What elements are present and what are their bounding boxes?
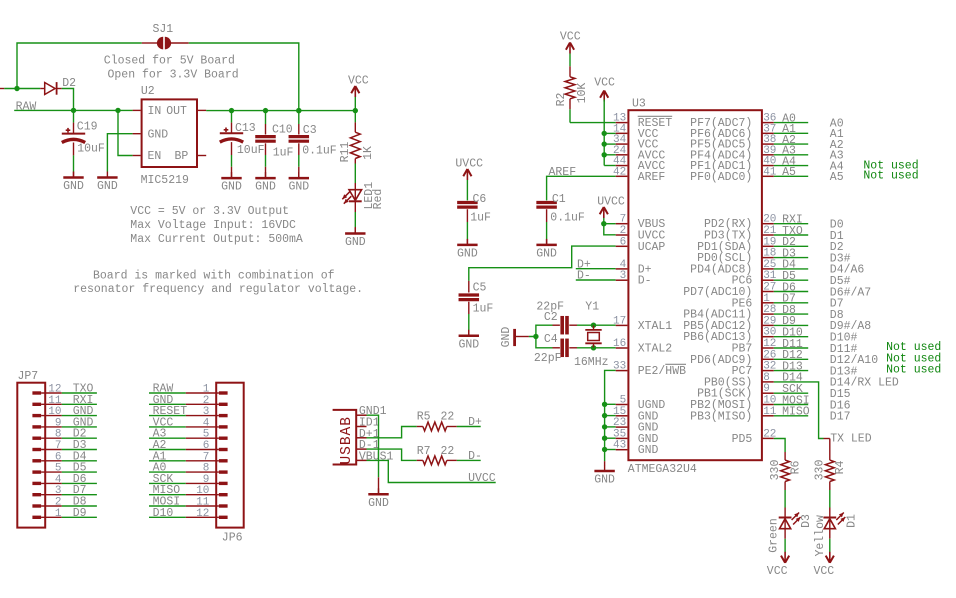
capacitor C2 22pF <box>536 301 593 335</box>
ground at crystal <box>500 327 529 348</box>
wire PE2 to ground net <box>605 370 616 465</box>
svg-text:GND: GND <box>368 497 389 510</box>
svg-text:12: 12 <box>196 508 209 520</box>
wire R4 feed <box>829 439 831 453</box>
power VCC below D1 <box>814 552 835 578</box>
svg-text:Yellow: Yellow <box>814 515 827 557</box>
ground under C3 <box>288 172 309 194</box>
wires JP6 nets <box>149 383 187 520</box>
svg-text:5: 5 <box>620 395 627 407</box>
svg-text:1: 1 <box>203 384 210 396</box>
wire RESET net <box>570 109 616 122</box>
wire U2 EN connection <box>118 110 133 155</box>
svg-text:GND: GND <box>255 181 276 194</box>
svg-text:C2: C2 <box>544 311 558 324</box>
svg-text:D9: D9 <box>73 507 87 520</box>
svg-text:VCC: VCC <box>348 75 369 88</box>
svg-text:R11: R11 <box>339 142 352 163</box>
svg-text:GND: GND <box>345 236 366 249</box>
svg-text:RAW: RAW <box>16 100 37 113</box>
svg-text:USBAB: USBAB <box>339 416 355 465</box>
svg-text:C5: C5 <box>473 282 487 295</box>
wire crystal ground net <box>529 325 553 348</box>
svg-text:R4: R4 <box>834 461 847 475</box>
svg-text:R6: R6 <box>789 461 802 475</box>
wire XTAL2 <box>594 347 616 349</box>
svg-text:XTAL2: XTAL2 <box>638 343 673 356</box>
note board marking <box>73 270 363 296</box>
svg-text:11: 11 <box>196 497 210 509</box>
wires U3 GND pins <box>602 402 616 453</box>
IC U3 ATMEGA32U4 <box>613 98 777 477</box>
svg-text:Open for 3.3V Board: Open for 3.3V Board <box>108 68 239 81</box>
capacitor C3 0.1uF <box>289 111 337 179</box>
svg-text:330: 330 <box>814 460 827 481</box>
labels A0-A5 <box>830 117 844 184</box>
svg-text:330: 330 <box>769 460 782 481</box>
resistor R6 330 <box>769 452 803 508</box>
capacitor C1 0.1uF <box>536 193 585 245</box>
wires digital pins <box>774 214 810 419</box>
wire SJ1 to VCC rail <box>189 43 302 113</box>
power VCC above R11 <box>348 75 369 111</box>
svg-text:1: 1 <box>55 508 62 520</box>
ground under LED1 <box>345 228 366 250</box>
svg-text:VCC: VCC <box>560 31 581 44</box>
wires analog pins A0-A5 <box>774 112 808 179</box>
svg-text:0.1uF: 0.1uF <box>550 212 585 225</box>
power UVCC at VBUS <box>597 196 625 224</box>
svg-text:Green: Green <box>767 518 780 553</box>
wire VCC output rail <box>206 108 358 113</box>
svg-text:XTAL1: XTAL1 <box>638 320 673 333</box>
capacitor C5 1uF <box>459 281 494 336</box>
wire net D+ <box>457 416 482 429</box>
svg-text:D-: D- <box>638 275 652 288</box>
svg-text:JP6: JP6 <box>222 532 243 545</box>
svg-text:EN: EN <box>148 150 162 163</box>
svg-text:UCAP: UCAP <box>638 241 666 254</box>
svg-text:15: 15 <box>613 406 626 418</box>
svg-text:resonator frequency and regula: resonator frequency and regulator voltag… <box>73 283 363 296</box>
svg-text:3: 3 <box>55 485 62 497</box>
svg-text:Not used: Not used <box>886 364 941 377</box>
LED D1 Yellow <box>814 508 858 557</box>
resistor R7 22 <box>417 445 457 465</box>
svg-text:MIC5219: MIC5219 <box>141 174 189 187</box>
svg-text:VCC: VCC <box>814 565 835 578</box>
svg-text:PB3(MISO): PB3(MISO) <box>690 410 752 423</box>
wire net D- <box>457 450 482 463</box>
svg-text:D10: D10 <box>153 507 174 520</box>
ground under C13 <box>221 172 242 194</box>
LED LED1 Red <box>342 182 385 234</box>
svg-text:4: 4 <box>55 474 62 486</box>
svg-text:C1: C1 <box>552 193 566 206</box>
svg-text:VCC = 5V or 3.3V Output: VCC = 5V or 3.3V Output <box>130 205 289 218</box>
svg-text:22: 22 <box>441 445 455 458</box>
svg-text:Red: Red <box>372 189 385 210</box>
svg-text:4: 4 <box>203 417 210 429</box>
ground under C5 <box>458 330 479 352</box>
svg-text:6: 6 <box>55 451 62 463</box>
svg-text:8: 8 <box>203 463 210 475</box>
svg-text:5: 5 <box>55 463 62 475</box>
svg-text:35: 35 <box>613 428 626 440</box>
svg-text:43: 43 <box>613 440 626 452</box>
ground under C1 <box>536 239 557 261</box>
connector JP7 <box>17 370 62 528</box>
wire VBUS1 to UVCC <box>367 460 496 485</box>
svg-text:D-: D- <box>468 450 482 463</box>
ground under U2 <box>97 172 118 194</box>
svg-text:7: 7 <box>55 440 62 452</box>
svg-text:9: 9 <box>763 383 770 395</box>
svg-text:VCC: VCC <box>767 565 788 578</box>
svg-text:UVCC: UVCC <box>455 157 483 170</box>
svg-text:C6: C6 <box>473 193 487 206</box>
capacitor C10 1uF <box>255 111 293 179</box>
svg-text:GND: GND <box>148 128 169 141</box>
svg-text:UVCC: UVCC <box>468 472 496 485</box>
svg-text:Max Current Output: 500mA: Max Current Output: 500mA <box>130 233 303 246</box>
crystal Y1 16MHz <box>574 301 609 369</box>
net label RAW <box>16 100 37 113</box>
note regulator specs <box>130 205 303 246</box>
svg-text:GND: GND <box>458 338 479 351</box>
svg-text:GND: GND <box>63 180 84 193</box>
ground under C19 <box>63 172 84 194</box>
svg-text:MISO: MISO <box>782 406 810 419</box>
wire VCC to U3 power pins <box>602 100 616 166</box>
svg-text:JP7: JP7 <box>18 370 39 383</box>
svg-text:8: 8 <box>55 429 62 441</box>
wire net D- at U3 <box>576 270 616 283</box>
svg-text:R7: R7 <box>417 445 431 458</box>
svg-text:11: 11 <box>48 395 62 407</box>
svg-text:8: 8 <box>763 372 770 384</box>
svg-text:AREF: AREF <box>549 166 577 179</box>
wire RX LED net from PB0 <box>774 372 830 439</box>
svg-text:2: 2 <box>620 225 627 237</box>
svg-text:A5: A5 <box>830 171 844 184</box>
svg-text:VCC: VCC <box>594 76 615 89</box>
wire UCAP to C5 <box>469 246 616 281</box>
wire net D+ at U3 <box>576 258 616 271</box>
svg-text:ATMEGA32U4: ATMEGA32U4 <box>628 463 697 476</box>
svg-text:GND: GND <box>500 327 513 348</box>
svg-text:2: 2 <box>55 497 62 509</box>
svg-text:Closed for 5V Board: Closed for 5V Board <box>104 55 235 68</box>
note closed/open jumper <box>104 55 239 82</box>
svg-text:PD5: PD5 <box>732 433 753 446</box>
labels digital pins <box>830 219 899 424</box>
svg-text:22: 22 <box>441 411 455 424</box>
svg-text:6: 6 <box>620 236 627 248</box>
wire RAW rail <box>14 108 132 113</box>
svg-text:1uF: 1uF <box>473 303 494 316</box>
wire D+1 to R5 <box>367 427 417 438</box>
wire XTAL1 <box>594 324 616 326</box>
power VCC above R2 <box>560 31 581 67</box>
svg-text:C4: C4 <box>544 333 558 346</box>
svg-text:C13: C13 <box>235 122 256 135</box>
wire D-1 to R7 <box>367 449 417 460</box>
ground under C10 <box>255 172 276 194</box>
connector USBAB <box>333 405 394 464</box>
ground under C6 <box>457 239 478 261</box>
svg-text:6: 6 <box>203 440 210 452</box>
svg-text:10K: 10K <box>576 83 589 104</box>
svg-text:A5: A5 <box>782 166 796 179</box>
svg-text:Y1: Y1 <box>585 301 599 314</box>
svg-text:U3: U3 <box>632 98 646 111</box>
svg-text:7: 7 <box>203 451 210 463</box>
svg-text:16MHz: 16MHz <box>574 356 609 369</box>
ground under U3 <box>594 465 615 487</box>
wire USB GND1 to ground <box>367 415 379 494</box>
svg-text:C19: C19 <box>77 120 98 133</box>
svg-text:R2: R2 <box>555 93 568 107</box>
capacitor C19 10uF <box>62 110 105 177</box>
svg-text:3: 3 <box>620 270 627 282</box>
ground under USBAB <box>368 488 389 510</box>
svg-text:0.1uF: 0.1uF <box>302 145 337 158</box>
label TX LED <box>830 433 872 446</box>
svg-text:TX LED: TX LED <box>830 433 872 446</box>
svg-text:33: 33 <box>613 361 626 373</box>
wire UVCC to VBUS and UVCC pins <box>601 221 616 235</box>
svg-text:5: 5 <box>203 429 210 441</box>
svg-text:10: 10 <box>196 485 209 497</box>
svg-text:PE2/HWB: PE2/HWB <box>638 365 686 378</box>
svg-text:GND: GND <box>221 181 242 194</box>
capacitor C13 10uF <box>220 111 265 179</box>
labels Not used analog <box>863 159 918 182</box>
diode D2 <box>40 77 76 95</box>
svg-text:IN: IN <box>148 105 162 118</box>
power VCC below D3 <box>767 552 789 578</box>
labels Not used digital <box>886 341 941 377</box>
svg-text:9: 9 <box>55 417 62 429</box>
svg-text:12: 12 <box>48 384 61 396</box>
svg-text:BP: BP <box>175 150 189 163</box>
svg-text:16: 16 <box>613 338 626 350</box>
svg-text:SJ1: SJ1 <box>153 23 174 36</box>
svg-text:GND: GND <box>536 248 557 261</box>
svg-text:R5: R5 <box>417 411 431 424</box>
svg-text:1uF: 1uF <box>273 146 294 159</box>
svg-text:GND: GND <box>97 180 118 193</box>
resistor R11 1K <box>339 111 375 183</box>
wire RAW input to D2 anode <box>0 88 40 90</box>
svg-text:D14: D14 <box>782 372 803 385</box>
svg-text:GND: GND <box>288 181 309 194</box>
svg-text:GND: GND <box>594 474 615 487</box>
svg-text:23: 23 <box>613 417 626 429</box>
power UVCC above C6 <box>455 157 483 200</box>
connector JP6 <box>186 383 244 545</box>
power VCC above U3 <box>594 76 615 101</box>
svg-text:PF0(ADC0): PF0(ADC0) <box>690 171 752 184</box>
wire D2 cathode to RAW rail <box>62 89 74 111</box>
svg-text:22pF: 22pF <box>534 352 562 365</box>
wire PD5 to R6 <box>774 439 785 453</box>
svg-text:Board is marked with combinati: Board is marked with combination of <box>93 270 335 283</box>
regulator U2 MIC5219 <box>133 85 207 187</box>
svg-text:Max Voltage Input: 16VDC: Max Voltage Input: 16VDC <box>130 219 296 232</box>
svg-text:Not used: Not used <box>863 170 918 183</box>
capacitor C6 1uF <box>457 193 491 245</box>
svg-text:1K: 1K <box>362 146 375 160</box>
svg-text:4: 4 <box>620 259 627 271</box>
svg-text:C3: C3 <box>303 124 317 137</box>
resistor R5 22 <box>417 411 457 431</box>
svg-text:D+: D+ <box>468 416 482 429</box>
svg-text:17: 17 <box>613 315 626 327</box>
svg-text:D3: D3 <box>800 514 813 528</box>
svg-text:10: 10 <box>48 406 61 418</box>
wire top jumper rail <box>14 43 142 91</box>
svg-text:42: 42 <box>613 166 626 178</box>
svg-text:3: 3 <box>203 406 210 418</box>
wire U2 GND to ground <box>107 134 132 172</box>
wires JP7 nets <box>62 383 97 520</box>
svg-text:9: 9 <box>203 474 210 486</box>
svg-text:7: 7 <box>620 214 627 226</box>
svg-text:UVCC: UVCC <box>597 196 625 209</box>
svg-text:GND: GND <box>457 248 478 261</box>
capacitor C4 22pF <box>534 333 594 365</box>
resistor R2 10K <box>555 66 589 109</box>
svg-text:GND: GND <box>638 444 659 457</box>
wire AREF <box>547 166 616 200</box>
svg-text:U2: U2 <box>141 85 155 98</box>
svg-text:D-: D- <box>577 270 591 283</box>
svg-text:C10: C10 <box>272 123 293 136</box>
svg-text:OUT: OUT <box>166 105 187 118</box>
svg-text:10uF: 10uF <box>77 143 105 156</box>
svg-text:1uF: 1uF <box>470 212 491 225</box>
svg-text:D17: D17 <box>830 411 851 424</box>
svg-text:AREF: AREF <box>638 171 666 184</box>
svg-text:2: 2 <box>203 395 210 407</box>
svg-text:1: 1 <box>763 293 770 305</box>
resistor R4 330 <box>814 452 848 508</box>
solder jumper SJ1 <box>142 23 189 49</box>
LED D3 Green <box>767 508 813 553</box>
svg-text:D1: D1 <box>846 514 859 528</box>
svg-text:10uF: 10uF <box>237 144 265 157</box>
